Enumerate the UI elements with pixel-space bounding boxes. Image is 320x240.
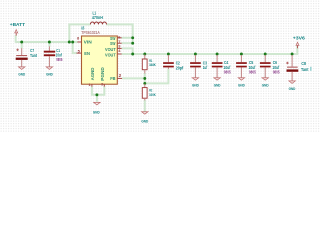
pin VOUT1 stub bbox=[117, 47, 121, 49]
svg-text:Tant: Tant bbox=[301, 67, 309, 72]
node VOUT-C5 junction bbox=[240, 53, 243, 56]
capacitor C7 bbox=[16, 48, 28, 67]
svg-text:GND: GND bbox=[93, 110, 100, 115]
pin FB stub bbox=[117, 77, 122, 79]
svg-text:20pf: 20pf bbox=[176, 65, 184, 70]
node C2-FB junction bbox=[143, 82, 146, 85]
svg-text:2: 2 bbox=[119, 73, 122, 78]
svg-text:0805: 0805 bbox=[273, 70, 280, 75]
node VOUT-R1 junction bbox=[143, 53, 146, 56]
inductor L1 bbox=[90, 22, 106, 24]
svg-text:TPS61021A: TPS61021A bbox=[81, 30, 100, 35]
svg-text:PGND: PGND bbox=[100, 67, 105, 81]
svg-text:GND: GND bbox=[141, 119, 148, 124]
power symbol +3V6 bbox=[293, 35, 306, 48]
pin VOUT2 stub bbox=[117, 53, 121, 55]
svg-text:+3V6: +3V6 bbox=[293, 35, 306, 40]
svg-text:SW: SW bbox=[110, 36, 116, 41]
node VOUT-C2 junction bbox=[167, 53, 170, 56]
wire VOUT1 bbox=[121, 48, 132, 54]
wire L1 top right bbox=[106, 23, 132, 25]
wire +BATT stem bbox=[15, 35, 17, 43]
capacitor C5 bbox=[236, 55, 247, 78]
ground under C3 bbox=[192, 78, 199, 88]
wire EN branch bbox=[73, 42, 77, 53]
node VOUT-C4 junction bbox=[216, 53, 219, 56]
pin EN stub bbox=[77, 52, 82, 54]
node SW2 junction bbox=[131, 42, 134, 45]
wire +3V6 riser bbox=[296, 46, 298, 55]
node VOUT-C6 junction bbox=[264, 53, 267, 56]
wire IC ground drop bbox=[96, 95, 98, 102]
svg-text:VOUT: VOUT bbox=[105, 47, 116, 52]
wire R1-R2 mid bbox=[144, 73, 146, 84]
ground under C5 bbox=[238, 78, 245, 88]
node edge text fragment bbox=[310, 67, 312, 71]
capacitor C3 bbox=[190, 55, 201, 78]
pin SW2 stub bbox=[117, 42, 121, 44]
svg-text:AGND: AGND bbox=[90, 67, 95, 80]
ground under C8 bbox=[289, 81, 296, 91]
ground under IC bbox=[93, 102, 100, 114]
svg-text:GND: GND bbox=[46, 72, 53, 77]
svg-text:100K: 100K bbox=[149, 92, 156, 97]
pin AGND stub bbox=[91, 84, 93, 86]
svg-text:GND: GND bbox=[192, 82, 199, 87]
pin SW1 stub bbox=[117, 37, 121, 39]
power symbol +BATT bbox=[10, 22, 25, 35]
ground under C4 bbox=[214, 78, 221, 88]
node BATT-EN junction bbox=[71, 41, 74, 44]
svg-text:1uf: 1uf bbox=[203, 65, 208, 70]
svg-text:0805: 0805 bbox=[249, 70, 256, 75]
wire SW2 bbox=[121, 42, 132, 44]
svg-text:348K: 348K bbox=[149, 62, 156, 67]
node BATT-C1 junction bbox=[48, 41, 51, 44]
wire L1 top left bbox=[68, 23, 90, 25]
ground under C7 bbox=[18, 67, 25, 77]
svg-text:0805: 0805 bbox=[224, 70, 231, 75]
capacitor C1 bbox=[44, 46, 55, 67]
node VOUT-C3 junction bbox=[194, 53, 197, 56]
svg-text:C8: C8 bbox=[301, 61, 306, 66]
node BATT-C7 junction bbox=[20, 41, 23, 44]
resistor R2 bbox=[142, 84, 147, 101]
capacitor C8 bbox=[286, 55, 298, 81]
svg-text:VIN: VIN bbox=[84, 40, 93, 45]
svg-text:SW: SW bbox=[110, 41, 116, 46]
svg-text:GND: GND bbox=[18, 72, 25, 77]
wire L1 riser bbox=[68, 24, 70, 42]
svg-text:GND: GND bbox=[214, 82, 221, 87]
wire C1 drop bbox=[48, 42, 50, 47]
node SW1 junction bbox=[131, 36, 134, 39]
wire VOUT bus bbox=[121, 53, 297, 55]
node VOUT1 junction bbox=[131, 53, 134, 56]
svg-text:VOUT: VOUT bbox=[105, 52, 116, 57]
svg-text:+BATT: +BATT bbox=[10, 22, 25, 27]
pin VIN stub bbox=[78, 41, 82, 43]
wire BATT bus bbox=[16, 41, 78, 43]
pin PGND stub bbox=[103, 84, 105, 86]
svg-text:Tant: Tant bbox=[30, 53, 37, 58]
wire FB bbox=[122, 77, 145, 79]
node FB junction bbox=[143, 77, 146, 80]
capacitor C4 bbox=[212, 55, 223, 78]
node BATT-L1 junction bbox=[68, 41, 71, 44]
ground under R2 bbox=[141, 112, 148, 124]
node IC ground junction bbox=[95, 93, 98, 96]
wire IC ground U bbox=[92, 86, 104, 95]
IC U5 TPS61021A body bbox=[82, 36, 118, 84]
wire SW drop bbox=[132, 23, 134, 43]
svg-text:0805: 0805 bbox=[56, 57, 62, 62]
svg-text:EN: EN bbox=[84, 51, 90, 56]
svg-text:470nH: 470nH bbox=[92, 15, 103, 20]
svg-text:GND: GND bbox=[262, 82, 269, 87]
node VOUT-C8 junction bbox=[291, 53, 294, 56]
capacitor C6 bbox=[260, 55, 271, 78]
wire SW1 bbox=[121, 37, 132, 39]
wire R2 ground drop bbox=[144, 100, 146, 112]
capacitor C2 bbox=[163, 55, 174, 69]
wire C2 return bbox=[145, 69, 169, 84]
svg-text:GND: GND bbox=[289, 86, 296, 91]
resistor R1 bbox=[142, 55, 147, 74]
svg-text:GND: GND bbox=[238, 82, 245, 87]
wire C7 drop bbox=[21, 42, 23, 48]
ground under C1 bbox=[46, 67, 53, 77]
ground under C6 bbox=[262, 78, 269, 88]
svg-text:FB: FB bbox=[110, 76, 116, 81]
